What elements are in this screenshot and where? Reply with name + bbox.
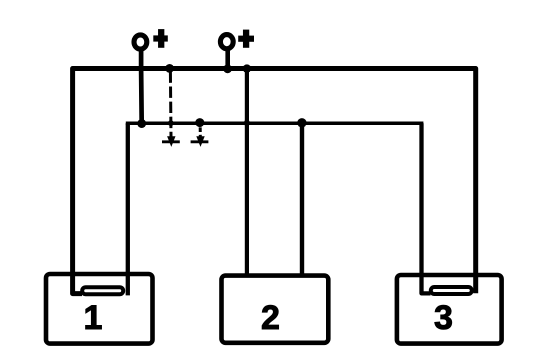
unit 3 box [397,275,502,344]
node: junction dot, dashed probe 2 on second rail [195,118,204,127]
node: crossing bulge where dashed probe 1 crosses second rail [168,120,174,126]
svg-text:3: 3 [434,299,453,337]
wire: drop from second rail to unit 2 (right lead) [300,123,304,274]
wire: top supply rail with left vertical to unit 1 and right vertical to unit 3 [73,69,476,294]
terminal X1 circle [134,35,147,49]
crossbar of probe 2 [191,140,209,143]
dashed probe line 1 from top rail [169,71,173,136]
node: junction dot, terminal X1 wire on second rail [137,119,146,128]
node: junction dot, unit 2 right lead on second rail [297,118,306,127]
node: junction dot, dashed probe 1 on top rail [165,64,174,73]
svg-text:1: 1 [84,299,103,337]
plus sign at terminal X1 [153,29,168,48]
terminal X1 stem wire down to second rail [139,49,144,123]
node: junction dot, terminal X2 stem on top rail [223,64,232,73]
unit 2 box [222,276,329,343]
node: junction dot, unit 2 left lead on top rail [243,64,251,72]
terminal X2 circle [220,35,233,49]
terminal X2 stem wire to top rail [225,50,230,69]
plus sign at terminal X2 [238,30,254,48]
wire: second horizontal rail [126,121,424,125]
dashed probe line 2 from second rail [199,127,202,137]
crossbar of probe 1 [162,140,180,143]
arrowhead of probe 1 [167,136,175,147]
arrowhead of probe 2 [196,136,204,147]
wire: drop from top rail to unit 2 (left lead) [245,69,249,274]
wire: second rail right vertical down into unit 3 [422,123,431,293]
lamp capsule inside unit 3 [431,287,472,294]
wire: second rail left vertical down into unit 1 [126,123,130,295]
node: crossing bulge where unit 2 left lead crosses second rail [244,120,250,126]
svg-text:2: 2 [261,299,280,337]
lamp capsule inside unit 1 [82,287,123,294]
unit 1 box [46,274,153,344]
